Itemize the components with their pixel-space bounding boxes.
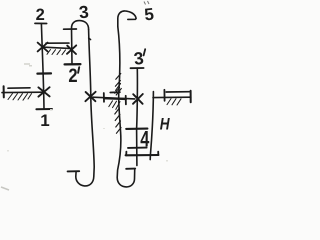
gear 2' line with internal ring 3 top hook xyxy=(71,21,88,65)
gear 4 bottom rim cap xyxy=(128,147,147,149)
ring gear 3 hook end cap xyxy=(68,170,80,172)
label 2' prime xyxy=(78,67,79,73)
node right shaft end cap xyxy=(190,91,192,102)
wire thick shaft portion at ring 5 crossing xyxy=(104,97,126,100)
node X joint ring 3 on main shaft xyxy=(85,92,95,101)
gear 2' top rim cap xyxy=(64,28,77,30)
ring gear 5 hook end cap xyxy=(126,168,135,170)
svg-text:3: 3 xyxy=(133,48,145,69)
svg-text:3: 3 xyxy=(78,2,90,23)
gear 2' bottom rim cap xyxy=(65,63,81,66)
wire upper planet shaft lower line xyxy=(44,47,70,48)
ground hatching under input shaft xyxy=(8,94,32,101)
scan smudge bottom left xyxy=(1,187,9,190)
ground hatching under carrier shaft xyxy=(167,99,181,105)
wire upper planet shaft (2-2' axle) upper line xyxy=(46,42,69,44)
carrier H shaft (right horizontal) xyxy=(153,96,191,98)
scan speckles xyxy=(7,63,168,162)
node X joint gear 2' on upper shaft xyxy=(67,45,76,54)
svg-text:5: 5 xyxy=(143,5,154,25)
svg-text:H: H xyxy=(160,115,171,134)
node X joint gear 1 on main shaft xyxy=(38,87,49,96)
wire central main shaft segment xyxy=(93,97,135,99)
gear 3' bottom rim cap xyxy=(126,128,147,130)
node scan marks top edge xyxy=(144,1,149,5)
ring gear 5 rim body with bottom hook xyxy=(117,27,135,187)
carrier H arm (vertical down to planet axle) xyxy=(150,92,153,160)
ground hatching on ring 5 rim (fixed ring) xyxy=(115,74,122,134)
ring gear 3 rim (tall vertical) with bottom hook xyxy=(76,30,94,186)
node bearing tick on carrier shaft xyxy=(163,90,165,101)
gear 2 / gear 1 shared mesh cap xyxy=(37,72,51,74)
svg-text:1: 1 xyxy=(40,111,49,130)
node left shaft end cap xyxy=(3,86,5,97)
ground hatching below main shaft near ring 5 xyxy=(109,101,120,110)
gear 2 top rim cap xyxy=(35,22,47,24)
gear 3' top rim cap xyxy=(131,67,144,69)
svg-text:2: 2 xyxy=(36,6,45,24)
ground hatching under upper shaft xyxy=(47,50,66,55)
bearing support on input shaft (frame) xyxy=(8,87,30,89)
bearing support dash above carrier shaft xyxy=(166,91,189,93)
node axle left end tick xyxy=(125,152,127,156)
bearing support dash above main shaft xyxy=(110,91,120,93)
svg-text:4: 4 xyxy=(140,127,149,152)
node small tick on ring 3 rim xyxy=(89,38,91,40)
gear 2 / gear 1 common line (vertical) xyxy=(41,24,44,109)
label 3' prime xyxy=(144,49,146,55)
ring gear 5 rim (tall vertical) with top hook xyxy=(118,11,136,27)
svg-text:2: 2 xyxy=(68,65,77,87)
node X joint gear 2 on upper shaft xyxy=(38,43,48,52)
node axle right end tick xyxy=(157,152,159,156)
node X joint gear 3' on main shaft xyxy=(133,94,143,104)
node bearing tick right of ring 5 rim xyxy=(125,96,127,105)
wire input shaft left segment xyxy=(2,91,44,93)
carrier planet axle line xyxy=(126,154,159,156)
gear 1 bottom rim cap xyxy=(36,108,52,110)
node bearing tick left of ring 5 rim xyxy=(103,93,105,102)
gear 3' / gear 4 common line (vertical) xyxy=(136,68,139,165)
